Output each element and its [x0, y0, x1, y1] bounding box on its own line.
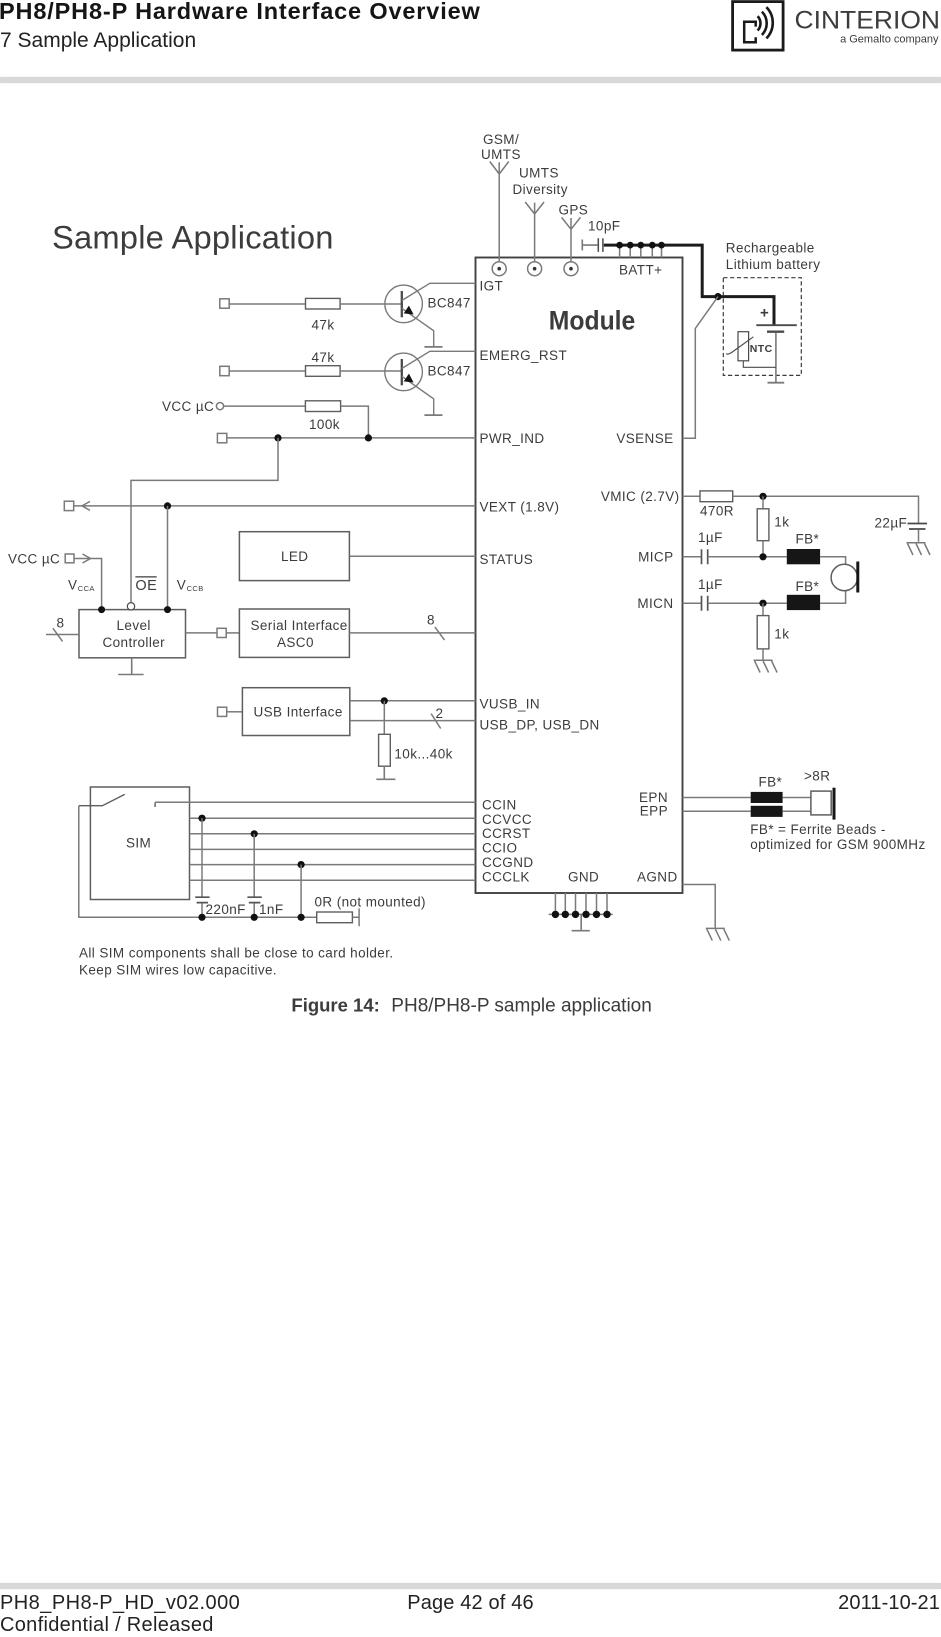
resistor R5 terminal — [352, 908, 359, 926]
svg-text:VCC µC: VCC µC — [162, 399, 214, 414]
svg-text:USB_DP, USB_DN: USB_DP, USB_DN — [480, 718, 600, 733]
svg-text:GND: GND — [568, 869, 599, 884]
ground R8 chassis — [762, 649, 764, 660]
wire CCIN — [155, 801, 475, 803]
antenna A3 GPS — [562, 217, 581, 275]
svg-text:220nF: 220nF — [206, 902, 246, 917]
svg-text:PH8/PH8-P sample application: PH8/PH8-P sample application — [391, 996, 652, 1017]
ground Q1 emitter — [424, 346, 442, 348]
wire VSENSE — [683, 297, 719, 439]
header rule — [0, 77, 941, 83]
svg-text:Module: Module — [549, 305, 636, 335]
wire CCIO — [190, 848, 476, 850]
pad P6 (ASC0) — [217, 628, 226, 637]
transistor Q2 BC847 — [385, 351, 476, 415]
svg-text:OE: OE — [135, 578, 157, 594]
wire EPN — [683, 797, 751, 799]
arrow VEXT left — [82, 501, 90, 510]
node BATT+ / battery junction — [714, 293, 721, 300]
logo — [0, 0, 941, 60]
svg-text:8: 8 — [57, 615, 65, 630]
wire MICN from module — [683, 602, 701, 604]
svg-text:BATT+: BATT+ — [619, 263, 662, 278]
wires FB to speaker — [783, 798, 811, 812]
wire PWR_IND — [227, 437, 476, 439]
ground AGND chassis — [706, 928, 730, 940]
BATT+ stub 2 — [629, 245, 631, 257]
GND stubs — [549, 893, 613, 914]
wire VCCuC to R3 — [224, 405, 306, 407]
pad P1 (IGT input) — [220, 299, 229, 308]
footer doc id — [0, 1592, 240, 1615]
USB interface box — [242, 688, 349, 736]
bus slash USB 2 — [431, 714, 441, 729]
svg-text:BC847: BC847 — [428, 296, 471, 311]
SIM presence switch — [79, 794, 125, 805]
svg-text:CCRST: CCRST — [482, 826, 531, 841]
ferrite bead FB3 — [751, 792, 783, 803]
serial interface ASC0 box — [239, 609, 349, 657]
svg-text:VCC µC: VCC µC — [8, 551, 60, 566]
bus wire 8 to level controller — [46, 634, 79, 636]
wire CCRST — [190, 833, 476, 835]
node VUSB junction — [381, 697, 388, 704]
transistor Q1 BC847 — [385, 283, 476, 346]
wire CCCLK — [190, 879, 476, 881]
wire R1 to Q1 base — [340, 303, 401, 305]
junction dots on BATT+ rail — [616, 242, 665, 249]
svg-text:1nF: 1nF — [259, 902, 283, 917]
svg-text:Sample Application: Sample Application — [52, 218, 334, 255]
ground Q2 emitter — [424, 414, 442, 416]
svg-text:FB*: FB* — [759, 774, 783, 789]
SIM switch contact — [154, 802, 156, 807]
capacitor C2 220nF — [195, 897, 209, 902]
svg-text:FB*: FB* — [796, 531, 820, 546]
svg-text:NTC: NTC — [750, 343, 773, 355]
svg-text:Keep SIM wires low capacitive.: Keep SIM wires low capacitive. — [79, 962, 277, 977]
pad P7 (USB) — [218, 707, 227, 716]
footer date — [838, 1592, 940, 1615]
svg-text:MICP: MICP — [638, 549, 673, 564]
resistor R7 1k — [757, 509, 769, 541]
node VMIC junction — [759, 493, 766, 500]
node CCRST junction — [251, 830, 258, 837]
battery negative terminal bar — [768, 382, 785, 384]
BATT+ stub 3 — [640, 245, 642, 257]
capacitor C1 plates — [598, 238, 603, 252]
resistor R6 470R — [683, 495, 701, 497]
battery negative lead — [775, 333, 777, 382]
wire LED to STATUS — [349, 555, 475, 557]
svg-text:ASC0: ASC0 — [277, 635, 314, 650]
header subtitle — [0, 29, 196, 53]
ground level controller — [118, 658, 143, 675]
pad P2 (EMERG_RST input) — [220, 366, 229, 375]
speaker LS1 bar — [833, 788, 836, 820]
wire NTC to battery negative — [743, 361, 776, 368]
capacitor C1 10pF terminal — [582, 240, 597, 251]
svg-text:470R: 470R — [700, 503, 734, 518]
wire CCGND down — [300, 865, 302, 918]
pad P5 — [65, 554, 74, 563]
BATT+ stub 4 — [651, 245, 653, 257]
capacitor C5 1uF (MICP) — [702, 549, 708, 564]
svg-text:+: + — [760, 305, 769, 322]
svg-text:CCCLK: CCCLK — [482, 869, 530, 884]
node VEXT junction — [164, 502, 171, 509]
LED box — [239, 532, 349, 581]
wire pad P7 to USB box — [227, 711, 243, 713]
wire VUSB_IN — [350, 700, 476, 702]
capacitor C3 1nF — [247, 897, 261, 902]
svg-text:IGT: IGT — [480, 279, 504, 294]
node CCGND junction — [298, 861, 305, 868]
svg-text:1µF: 1µF — [698, 530, 723, 545]
wire node A to OE — [131, 438, 278, 603]
resistor R3 100k — [305, 401, 340, 412]
svg-text:LED: LED — [281, 549, 308, 564]
wire AGND — [683, 885, 716, 928]
node rail C2 — [198, 914, 205, 921]
svg-text:GPS: GPS — [559, 203, 589, 218]
wire VMIC to R7 — [762, 496, 764, 509]
thermistor NTC diagonal — [726, 337, 753, 354]
ferrite bead FB2 — [787, 595, 820, 610]
svg-text:CCB: CCB — [187, 584, 204, 593]
svg-text:USB Interface: USB Interface — [254, 705, 343, 720]
wire VEXT with arrow — [74, 505, 476, 507]
wire VMIC rail — [733, 496, 919, 523]
svg-text:Controller: Controller — [103, 635, 166, 650]
ferrite bead FB1 — [787, 549, 820, 564]
svg-text:Lithium battery: Lithium battery — [726, 257, 821, 272]
logo box — [733, 2, 784, 51]
svg-text:MICN: MICN — [637, 596, 673, 611]
capacitor C6 1uF (MICN) — [702, 596, 708, 611]
wire junction to R4 — [383, 701, 385, 735]
svg-text:EPP: EPP — [640, 804, 668, 819]
svg-text:CCVCC: CCVCC — [482, 812, 532, 827]
node MICP junction — [759, 553, 766, 560]
svg-text:UMTS: UMTS — [481, 147, 521, 162]
wire R3 to PWR_IND node — [341, 406, 369, 438]
SIM card holder box — [90, 787, 189, 900]
svg-text:Serial Interface: Serial Interface — [251, 618, 348, 633]
node VCCB dot — [164, 606, 171, 613]
svg-text:Diversity: Diversity — [513, 182, 568, 197]
wire ASC0 to module — [349, 632, 475, 634]
svg-text:SIM: SIM — [126, 836, 151, 851]
pad P4 (VEXT out) — [64, 501, 73, 510]
bus slash left — [53, 628, 63, 641]
wire BATT+ thick rail — [604, 245, 774, 325]
speaker LS1 box — [811, 791, 831, 815]
wire FB2 to microphone — [820, 591, 846, 604]
wire MICN junction to R8 — [762, 603, 764, 615]
microphone MK1 bar — [856, 562, 859, 593]
svg-text:CCIO: CCIO — [482, 841, 517, 856]
ground C4 chassis — [907, 543, 931, 555]
wire VCCuC to VCCA — [74, 559, 102, 610]
node PWR_IND junction A — [274, 434, 281, 441]
wire CCVCC — [190, 817, 476, 819]
svg-text:STATUS: STATUS — [480, 552, 534, 567]
svg-text:All SIM components shall be cl: All SIM components shall be close to car… — [79, 945, 394, 960]
wire VEXT to VCCB — [167, 506, 169, 610]
wire pad P2 to R2 — [229, 370, 305, 372]
svg-text:FB*: FB* — [796, 579, 820, 594]
ground R4 — [376, 766, 395, 779]
wire EPP — [683, 810, 751, 812]
resistor R2 47k — [306, 366, 341, 377]
svg-text:100k: 100k — [309, 417, 340, 432]
node rail CCGND — [298, 914, 305, 921]
svg-text:1µF: 1µF — [698, 577, 723, 592]
svg-text:47k: 47k — [312, 350, 335, 365]
antenna A1 GSM/UMTS — [490, 162, 509, 276]
svg-text:FB* = Ferrite Beads -: FB* = Ferrite Beads - — [750, 822, 886, 837]
wire level controller to pad P6 — [186, 632, 218, 634]
svg-text:Rechargeable: Rechargeable — [726, 240, 815, 255]
wire pad P6 to ASC0 box — [226, 632, 239, 634]
wire USB_DP/DN — [350, 720, 476, 722]
svg-text:10pF: 10pF — [588, 219, 620, 234]
svg-text:2: 2 — [436, 706, 444, 721]
node MICN junction — [759, 600, 766, 607]
node VCCA dot — [98, 606, 105, 613]
svg-text:CCA: CCA — [78, 584, 95, 593]
wire FB1 to microphone — [820, 557, 846, 565]
svg-text:VMIC (2.7V): VMIC (2.7V) — [601, 489, 680, 504]
wire C6 to FB2 — [708, 602, 787, 604]
svg-text:10k...40k: 10k...40k — [394, 746, 452, 761]
wire pad P1 to R1 — [229, 303, 305, 305]
microphone MK1 — [831, 564, 857, 590]
resistor R8 1k — [757, 616, 769, 649]
thermistor NTC body — [738, 332, 749, 361]
antenna A2 UMTS Diversity — [525, 202, 544, 276]
svg-text:VSENSE: VSENSE — [616, 431, 673, 446]
battery dashed box — [723, 278, 801, 376]
svg-text:BC847: BC847 — [428, 364, 471, 379]
svg-text:>8R: >8R — [804, 768, 830, 783]
wire R7 to MICP — [762, 541, 764, 557]
footer confidential — [0, 1614, 214, 1637]
svg-text:UMTS: UMTS — [519, 165, 559, 180]
svg-text:V: V — [177, 578, 186, 593]
wire CCVCC to C2 — [201, 818, 203, 896]
node PWR_IND junction B — [365, 434, 372, 441]
arrow VCCA right — [83, 554, 91, 563]
svg-text:8: 8 — [427, 612, 435, 627]
svg-text:optimized for GSM 900MHz: optimized for GSM 900MHz — [750, 837, 925, 852]
svg-text:0R (not mounted): 0R (not mounted) — [315, 894, 426, 909]
svg-text:EMERG_RST: EMERG_RST — [480, 348, 568, 363]
svg-text:PWR_IND: PWR_IND — [480, 431, 545, 446]
svg-text:47k: 47k — [312, 318, 335, 333]
svg-text:1k: 1k — [774, 626, 789, 641]
node OE circle — [127, 603, 134, 610]
GND rail dots — [552, 911, 611, 918]
logo waves — [758, 7, 773, 38]
BATT+ stub 1 — [619, 245, 621, 257]
svg-text:V: V — [68, 578, 77, 593]
wire CCGND — [190, 864, 476, 866]
svg-text:CCGND: CCGND — [482, 855, 534, 870]
level controller U2 box — [79, 610, 186, 658]
battery BT1 plates — [756, 324, 797, 326]
svg-text:CCIN: CCIN — [482, 798, 517, 813]
svg-text:Figure 14:: Figure 14: — [291, 995, 379, 1016]
ground GND — [572, 914, 590, 930]
node rail C3 — [251, 914, 258, 921]
header title — [0, 0, 481, 25]
SIM ground rail — [79, 806, 317, 918]
resistor R1 47k — [306, 298, 341, 309]
pad P3 (PWR_IND) — [217, 433, 226, 442]
svg-text:VUSB_IN: VUSB_IN — [480, 697, 541, 712]
svg-text:Level: Level — [117, 618, 151, 633]
wire CCRST to C3 — [253, 834, 255, 897]
svg-text:VEXT (1.8V): VEXT (1.8V) — [480, 500, 560, 515]
BATT+ stub 5 — [661, 245, 663, 257]
ferrite bead FB4 — [751, 806, 783, 817]
wire MICP from module — [683, 556, 701, 558]
svg-text:AGND: AGND — [637, 869, 678, 884]
bus slash ASC0 — [435, 627, 445, 640]
resistor R4 10k-40k — [379, 734, 391, 766]
GND rail — [549, 913, 613, 915]
node CCVCC junction — [198, 815, 205, 822]
svg-text:22µF: 22µF — [875, 515, 908, 530]
svg-text:1k: 1k — [774, 514, 789, 529]
footer rule — [0, 1583, 941, 1589]
capacitor C4 22uF — [908, 524, 928, 530]
logo phone glyph — [744, 22, 756, 43]
wire R2 to Q2 base — [340, 370, 401, 372]
svg-text:GSM/: GSM/ — [483, 132, 519, 147]
wire C5 to FB1 — [708, 556, 787, 558]
footer page — [0, 1592, 941, 1615]
resistor R5 0R — [317, 912, 353, 923]
module U1 body — [476, 258, 683, 894]
